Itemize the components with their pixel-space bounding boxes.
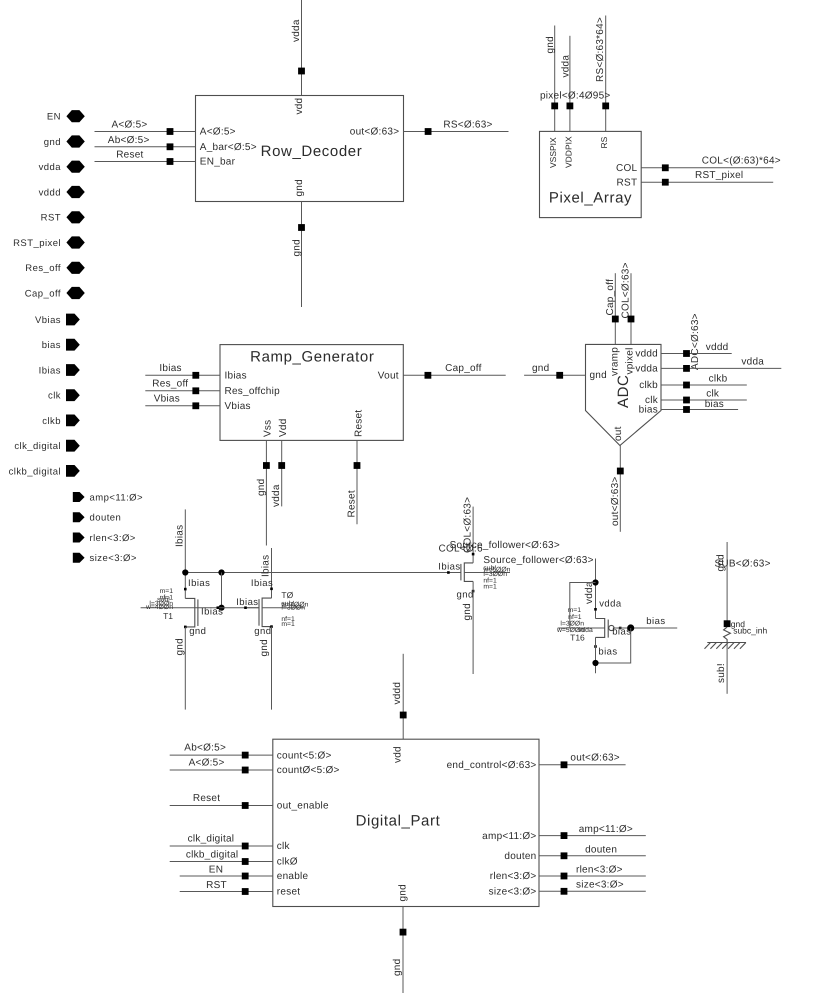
wire size<3:0> (digital output) <box>539 879 646 891</box>
svg-text:douten: douten <box>90 513 122 524</box>
wire out<0:63> (ADC output down) <box>619 446 621 532</box>
wire Ibias bus (mirror to source follower gate) <box>185 572 461 574</box>
wire RS<0:63> (row decoder output) <box>404 119 509 131</box>
svg-text:clkb_digital: clkb_digital <box>9 466 61 477</box>
svg-text:Vdd: Vdd <box>278 418 289 437</box>
wire gnd (substrate column) <box>726 542 728 624</box>
wire clkb_digital <box>170 849 273 861</box>
wire bias (T16 drain down) <box>595 637 597 673</box>
pin label clkb <box>639 380 658 391</box>
label Ibias (T0 drain) <box>251 578 273 589</box>
pin label clk <box>277 841 291 852</box>
svg-text:gnd: gnd <box>44 137 61 148</box>
svg-text:RST: RST <box>41 213 61 224</box>
wire gnd (VSSPIX supply) <box>554 26 556 132</box>
pin clkb (input arrow) <box>42 415 80 427</box>
svg-text:sub!: sub! <box>716 663 727 683</box>
svg-text:gnd: gnd <box>256 479 267 496</box>
svg-text:TØ: TØ <box>281 590 293 600</box>
junction square vpixel <box>628 316 635 323</box>
pin Ibias (input arrow) <box>39 364 80 376</box>
svg-text:clkb: clkb <box>709 373 728 384</box>
svg-text:vdda: vdda <box>635 364 658 375</box>
wire sub! (below bar) <box>726 643 728 694</box>
wire gnd (Row_Decoder bottom) <box>301 202 303 308</box>
label out<0:63> (vertical) <box>610 476 621 526</box>
svg-text:clkb: clkb <box>42 416 61 427</box>
svg-text:COL<Ø:63>: COL<Ø:63> <box>621 262 632 318</box>
junction square Vbias <box>192 402 199 409</box>
pin RST_pixel (hex) <box>13 236 85 249</box>
label bias (gate wire) <box>646 616 665 627</box>
op-amp U_ADC (pentagon block) <box>586 344 662 445</box>
label vdda (vertical) <box>291 19 302 42</box>
svg-text:bias: bias <box>598 647 617 658</box>
svg-text:gnd: gnd <box>294 179 305 196</box>
junction square RS <box>425 128 432 135</box>
svg-text:RS: RS <box>599 136 609 148</box>
svg-text:Ibias: Ibias <box>236 597 258 608</box>
svg-text:A<Ø:5>: A<Ø:5> <box>189 758 225 769</box>
pin bias (input arrow) <box>42 339 80 351</box>
pin label end_control<0:63> <box>447 760 537 771</box>
node vdda junction dot <box>592 579 598 585</box>
wire Res_off (ramp input) <box>145 379 220 391</box>
svg-text:bias: bias <box>42 340 61 351</box>
svg-text:Reset: Reset <box>116 150 143 161</box>
svg-text:Source_follower<Ø:63>: Source_follower<Ø:63> <box>450 540 560 551</box>
svg-text:Ibias: Ibias <box>438 562 460 573</box>
wire gnd (T0 source down) <box>271 627 273 710</box>
svg-text:douten: douten <box>504 851 536 862</box>
pin label Ibias <box>225 370 247 381</box>
wire Cap_off (vramp input) <box>614 273 616 344</box>
wire clk_digital <box>170 834 273 847</box>
junction square RST <box>242 888 249 895</box>
junction square gnd <box>724 620 731 627</box>
svg-text:Ibias: Ibias <box>159 363 181 374</box>
junction square Vdd <box>278 462 285 469</box>
svg-text:vddd: vddd <box>39 187 61 198</box>
junction square out <box>561 761 568 768</box>
svg-text:Source_follower<Ø:63>: Source_follower<Ø:63> <box>483 555 593 566</box>
label gnd (vertical SF) <box>462 603 473 620</box>
block Digital_Part <box>273 739 539 906</box>
wire Vbias (ramp input) <box>145 394 220 406</box>
wire gate-drain tie <box>596 628 631 663</box>
pin label vdd (Row_Decoder top) <box>294 98 305 115</box>
svg-text:rlen<3:Ø>: rlen<3:Ø> <box>576 865 623 876</box>
svg-text:ADC: ADC <box>615 375 632 408</box>
pin label vpixel (vertical) <box>624 347 635 374</box>
label vdda (vertical) <box>560 55 571 78</box>
label gnd (vertical T0) <box>259 639 270 656</box>
junction square Vss <box>263 462 270 469</box>
pin RST (hex) <box>41 211 85 224</box>
pin label Vss (vertical) <box>263 420 274 437</box>
junction square size <box>561 888 568 895</box>
svg-text:rlen<3:Ø>: rlen<3:Ø> <box>490 871 537 882</box>
svg-text:Res_offchip: Res_offchip <box>225 386 281 397</box>
label gnd (vertical T1) <box>175 638 186 655</box>
junction square gnd <box>298 224 305 231</box>
label gnd (vertical) <box>545 36 556 53</box>
svg-text:gnd: gnd <box>189 626 206 637</box>
pin label A_bar<0:5> <box>200 142 257 153</box>
junction square Reset <box>167 158 174 165</box>
pin label count<5:0> <box>277 750 332 761</box>
svg-text:Vbias: Vbias <box>225 401 251 412</box>
wire vddd (Digital_Part top supply) <box>402 654 404 739</box>
svg-text:A<Ø:5>: A<Ø:5> <box>200 127 236 138</box>
pin label amp<11:0> <box>482 831 536 842</box>
svg-text:vddd: vddd <box>635 349 658 360</box>
svg-text:bias: bias <box>646 616 665 627</box>
pin label VDDPIX (vertical) <box>563 136 573 168</box>
svg-text:T16: T16 <box>570 633 585 643</box>
svg-text:clkb_digital: clkb_digital <box>186 849 238 860</box>
svg-text:Reset: Reset <box>193 793 220 804</box>
junction square vddd <box>400 712 407 719</box>
wire vdda (VDDPIX supply) <box>569 36 571 132</box>
svg-text:size<3:Ø>: size<3:Ø> <box>576 879 624 890</box>
svg-text:clk_digital: clk_digital <box>14 441 61 452</box>
svg-text:amp<11:Ø>: amp<11:Ø> <box>482 831 536 842</box>
pin label RST <box>617 177 638 188</box>
svg-text:out: out <box>613 426 624 441</box>
label gnd (at square) <box>731 619 745 629</box>
pin label douten <box>504 851 536 862</box>
svg-text:RST_pixel: RST_pixel <box>13 238 61 249</box>
wire gate tie vertical <box>221 573 223 608</box>
pin vddd (hex) <box>39 186 85 199</box>
svg-text:out<Ø:63>: out<Ø:63> <box>350 127 400 138</box>
svg-text:out_enable: out_enable <box>277 801 329 812</box>
svg-text:RS<Ø:63*64>: RS<Ø:63*64> <box>595 17 606 82</box>
pin clk (input arrow) <box>48 389 80 401</box>
svg-text:bias: bias <box>705 399 724 410</box>
junction square clkb <box>683 382 690 389</box>
label RS<0:63*64> (vertical) <box>595 17 606 82</box>
block Row_Decoder <box>196 96 404 202</box>
resistor subc_inh (zigzag) <box>724 627 731 642</box>
pin Cap_off (hex) <box>25 287 85 300</box>
svg-text:gnd: gnd <box>175 638 186 655</box>
label Ibias (T1 gate) <box>201 607 223 618</box>
svg-text:Cap_off: Cap_off <box>445 363 482 374</box>
label gnd (T0 source) <box>254 626 271 637</box>
wire Cap_off (Vout output) <box>403 363 505 375</box>
wire Ibias (T1 drain stub up) <box>184 509 186 598</box>
junction square Ab <box>242 752 249 759</box>
svg-text:clk_digital: clk_digital <box>188 834 235 845</box>
pin clkb_digital (input arrow) <box>9 465 80 477</box>
wire gate/bulk line T1-T0 <box>141 607 260 609</box>
svg-text:gnd: gnd <box>462 603 473 620</box>
pin label vramp (vertical) <box>609 347 620 376</box>
junction square clkb_digital <box>242 858 249 865</box>
junction square Ibias <box>192 372 199 379</box>
svg-text:vdda: vdda <box>291 19 302 42</box>
svg-text:Ibias: Ibias <box>188 578 210 589</box>
wire COL<0:63> (source follower drain up) <box>472 507 474 563</box>
pin label Vbias <box>225 401 251 412</box>
svg-text:RST_pixel: RST_pixel <box>695 170 743 181</box>
pin EN (inputOutput hex) <box>47 110 85 123</box>
pin label Res_offchip <box>225 386 281 397</box>
svg-text:gnd: gnd <box>397 884 408 901</box>
wire clkb (ADC right) <box>661 373 747 385</box>
pin label out (vertical) <box>613 426 624 441</box>
pin label EN_bar <box>200 157 236 168</box>
svg-text:pixel<Ø:4Ø95>: pixel<Ø:4Ø95> <box>540 90 611 101</box>
label Ibias (T0 gate) <box>236 597 258 608</box>
wire RST <box>180 880 273 891</box>
pin amp<11:0> (output arrow) <box>73 492 143 504</box>
junction square A <box>167 128 174 135</box>
svg-text:reset: reset <box>277 887 300 898</box>
pin label COL <box>616 163 638 174</box>
label Ibias (vertical) <box>174 525 185 547</box>
pin label Vdd (vertical) <box>278 418 289 437</box>
pin rlen<3:0> (output arrow) <box>73 533 136 545</box>
junction square amp <box>561 832 568 839</box>
label vddd (vertical) <box>392 682 403 705</box>
svg-text:clk: clk <box>277 841 291 852</box>
svg-text:vddd: vddd <box>392 682 403 705</box>
wire gnd (Digital_Part bottom) <box>402 907 404 993</box>
pin label vdda <box>635 364 658 375</box>
pin label bias <box>639 405 658 416</box>
wire Reset <box>95 150 196 162</box>
pin gnd (hex) <box>44 135 85 148</box>
svg-text:RST: RST <box>617 177 638 188</box>
wire Ab<0:5> <box>95 135 196 147</box>
pin label count0<5:0> <box>277 765 340 776</box>
junction square Ab <box>167 143 174 150</box>
label Ibias (T1 drain) <box>188 578 210 589</box>
svg-text:l=3ØØn: l=3ØØn <box>281 605 305 612</box>
junction square Reset <box>242 802 249 809</box>
junction square rlen <box>561 873 568 880</box>
label vdda (vertical) <box>271 484 282 507</box>
label COL<0:63> (vertical) <box>621 262 632 318</box>
junction square clk_digital <box>242 843 249 850</box>
junction square douten <box>561 852 568 859</box>
svg-text:Ibias: Ibias <box>39 365 61 376</box>
wire Reset (digital input) <box>170 793 273 806</box>
pin label gnd (vertical, inside bottom) <box>397 884 408 901</box>
svg-text:RS<Ø:63>: RS<Ø:63> <box>443 119 492 130</box>
pin label clk <box>645 395 659 406</box>
svg-text:Vbias: Vbias <box>154 394 180 405</box>
svg-text:out<Ø:63>: out<Ø:63> <box>570 752 620 763</box>
junction square out <box>617 468 624 475</box>
transistor Q T1 (nmos, gate right) <box>184 588 219 628</box>
svg-text:Reset: Reset <box>353 410 364 437</box>
svg-text:count<5:Ø>: count<5:Ø> <box>277 750 332 761</box>
param stack T16 <box>556 607 593 643</box>
svg-text:Pixel_Array: Pixel_Array <box>549 190 632 207</box>
label pixel<0:4095> <box>540 90 611 101</box>
svg-text:gnd: gnd <box>292 239 303 256</box>
svg-text:Ab<Ø:5>: Ab<Ø:5> <box>184 743 226 754</box>
pin label VSSPIX (vertical) <box>548 137 558 168</box>
pin label RS (vertical) <box>599 136 609 148</box>
svg-text:Reset: Reset <box>347 490 358 517</box>
pin label enable <box>277 871 309 882</box>
svg-text:gnd: gnd <box>457 590 474 601</box>
svg-text:end_control<Ø:63>: end_control<Ø:63> <box>447 760 537 771</box>
svg-text:VDDPIX: VDDPIX <box>563 136 573 168</box>
svg-text:A<Ø:5>: A<Ø:5> <box>112 120 148 131</box>
pin Res_off (hex) <box>25 262 85 275</box>
svg-text:vdda: vdda <box>560 55 571 78</box>
node drain junction dot <box>592 660 598 666</box>
pin label A<0:5> <box>200 127 236 138</box>
junction square RST_pixel <box>662 179 669 186</box>
svg-text:Ibias: Ibias <box>251 578 273 589</box>
svg-text:vdd: vdd <box>294 98 305 115</box>
label subc_inh <box>733 625 767 635</box>
node Ibias junction dot gate tie <box>218 569 224 575</box>
svg-text:T1: T1 <box>163 611 173 621</box>
svg-text:gnd: gnd <box>259 639 270 656</box>
label COL<0:63> (vertical) <box>462 497 473 553</box>
pin clk_digital (input arrow) <box>14 440 79 452</box>
wire douten (digital output) <box>539 844 646 856</box>
svg-text:vddd: vddd <box>706 342 729 353</box>
param stack T1 <box>145 588 173 621</box>
svg-text:size<3:Ø>: size<3:Ø> <box>489 887 537 898</box>
svg-text:Vbias: Vbias <box>35 315 61 326</box>
svg-text:Digital_Part: Digital_Part <box>356 813 441 830</box>
pin label gnd (ADC left) <box>590 370 607 381</box>
pin label gnd (Row_Decoder bottom) <box>294 179 305 196</box>
junction square Reset <box>354 462 361 469</box>
svg-text:EN_bar: EN_bar <box>200 157 236 168</box>
svg-text:m=1: m=1 <box>281 621 295 628</box>
svg-text:out<Ø:63>: out<Ø:63> <box>610 476 621 526</box>
label gnd (vertical) <box>256 479 267 496</box>
svg-text:vdd: vdd <box>393 746 404 763</box>
wire bias (ADC right) <box>661 399 738 410</box>
svg-text:Cap_off: Cap_off <box>25 288 61 299</box>
pin label out_enable <box>277 801 329 812</box>
svg-text:w=4ØØn: w=4ØØn <box>145 604 173 611</box>
wire A<0:5> (digital input) <box>170 758 273 771</box>
wire COL<(0:63)*64> <box>641 156 781 168</box>
label gnd (vertical, substrate top) <box>715 554 726 571</box>
pin label Vout <box>378 370 399 381</box>
junction square Res_off <box>192 387 199 394</box>
svg-text:clk: clk <box>706 388 720 399</box>
junction square gnd ADC <box>556 372 563 379</box>
junction square clk <box>683 397 690 404</box>
svg-text:VSSPIX: VSSPIX <box>548 137 558 168</box>
svg-text:Vout: Vout <box>378 370 399 381</box>
label Ibias (SF gate) <box>438 562 460 573</box>
svg-text:douten: douten <box>585 844 617 855</box>
wire gnd (T1 source down) <box>184 627 186 710</box>
label COL<0:63> (horizontal overlap) <box>439 544 483 555</box>
svg-text:rlen<3:Ø>: rlen<3:Ø> <box>90 533 136 544</box>
junction square vddd <box>683 350 690 357</box>
wire COL<0:63> (vpixel input) <box>630 273 632 344</box>
label Cap_off (vertical) <box>605 279 616 316</box>
label gnd (vertical, below Digital_Part) <box>392 959 403 976</box>
label gnd (vertical, below Row_Decoder) <box>292 239 303 256</box>
svg-text:Ramp_Generator: Ramp_Generator <box>250 349 374 366</box>
transistor Q T0 (nmos, gate left) <box>244 588 273 628</box>
svg-text:Ibias: Ibias <box>261 555 272 577</box>
svg-text:A_bar<Ø:5>: A_bar<Ø:5> <box>200 142 257 153</box>
svg-text:Ibias: Ibias <box>201 607 223 618</box>
pin douten (output arrow) <box>73 512 121 524</box>
pin label Reset (vertical) <box>353 410 364 437</box>
svg-text:Row_Decoder: Row_Decoder <box>261 143 363 160</box>
pin label out<0:63> <box>350 127 400 138</box>
svg-text:vdda: vdda <box>741 357 764 368</box>
svg-text:Vss: Vss <box>263 420 274 437</box>
wire vdda (ADC right) <box>661 357 781 369</box>
svg-text:COL: COL <box>616 163 638 174</box>
svg-text:countØ<5:Ø>: countØ<5:Ø> <box>277 765 340 776</box>
wire A<0:5> <box>95 120 196 132</box>
svg-text:Ibias: Ibias <box>174 525 185 547</box>
svg-text:ADC<Ø:63>: ADC<Ø:63> <box>690 313 701 370</box>
svg-text:m=1: m=1 <box>483 584 497 591</box>
pin label vddd <box>635 349 658 360</box>
junction square vdda <box>298 68 305 75</box>
svg-text:amp<11:Ø>: amp<11:Ø> <box>90 493 144 504</box>
wire Ibias (ramp input) <box>145 363 220 375</box>
svg-text:COL<(Ø:63)*64>: COL<(Ø:63)*64> <box>702 156 781 167</box>
svg-text:clk: clk <box>48 391 61 402</box>
label bias (T16 drain) <box>598 647 617 658</box>
label SUB<0:63> <box>715 559 771 570</box>
label Source_follower<0:63> (lower) <box>483 555 593 566</box>
junction square EN <box>242 873 249 880</box>
svg-text:gnd: gnd <box>392 959 403 976</box>
wire Ab<0:5> (digital input) <box>170 743 273 756</box>
svg-text:Res_off: Res_off <box>152 379 188 390</box>
svg-text:vramp: vramp <box>609 347 620 376</box>
wire vdda (Row_Decoder top supply) <box>301 0 303 96</box>
block Ramp_Generator <box>220 345 403 441</box>
svg-text:clkb: clkb <box>639 380 658 391</box>
svg-text:EN: EN <box>47 112 61 123</box>
svg-text:vdda: vdda <box>271 484 282 507</box>
wire vdda (T16 source up) <box>595 559 597 619</box>
svg-text:bias: bias <box>639 405 658 416</box>
svg-text:SUB<Ø:63>: SUB<Ø:63> <box>715 559 771 570</box>
svg-text:Cap_off: Cap_off <box>605 279 616 316</box>
block Pixel_Array <box>540 131 642 217</box>
label Ibias (vertical T0) <box>261 555 272 577</box>
svg-text:Ibias: Ibias <box>225 370 247 381</box>
svg-text:gnd: gnd <box>532 363 549 374</box>
wire vddd (ADC right) <box>661 342 732 354</box>
pin label clk0 <box>277 857 298 868</box>
pin Vbias (input arrow) <box>35 314 80 326</box>
wire RS<0:63*64> <box>605 16 607 132</box>
wire gnd (ramp Vss down) <box>265 440 267 545</box>
svg-text:EN: EN <box>209 864 223 875</box>
wire rlen<3:0> (digital output) <box>539 865 646 877</box>
pin label size<3:0> <box>489 887 537 898</box>
ground (substrate hatched bar) <box>705 643 747 649</box>
